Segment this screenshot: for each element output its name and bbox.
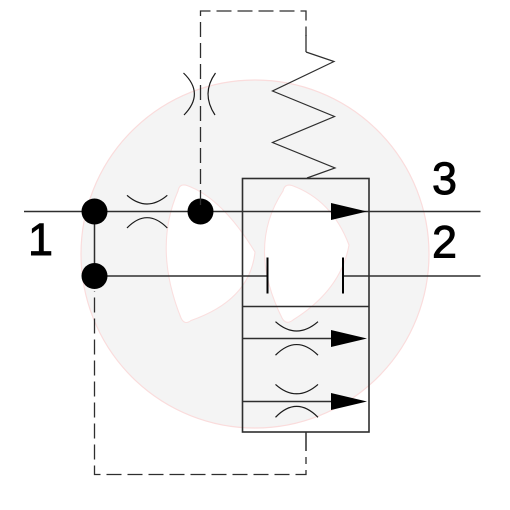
spring (273, 52, 336, 178)
throttle B arrow (331, 393, 367, 410)
watermark right petal (264, 185, 349, 322)
throttle A arrow (331, 330, 367, 347)
wire port 2 line right segment (343, 275, 481, 277)
junction node dot at port1/line2 (82, 263, 108, 289)
solid stub below valve body (305, 432, 307, 451)
wire solid lead into spring (305, 35, 307, 52)
pilot line dashed bottom (95, 291, 307, 475)
throttle B arcs (276, 384, 319, 417)
flow arrow in top section (331, 203, 367, 220)
wire vertical between node 1 junctions (94, 212, 96, 277)
throttle A arcs (276, 322, 319, 356)
svg-text:3: 3 (432, 153, 457, 204)
valve body divider (243, 306, 370, 308)
junction node dot at pilot tap on line3 (188, 199, 214, 225)
pilot restriction on dashed line (184, 73, 216, 115)
orifice on line 3 (127, 195, 167, 228)
blocked port tick left (267, 258, 269, 294)
blocked port tick right (342, 258, 344, 294)
throttle A flow line (243, 338, 341, 340)
svg-text:1: 1 (28, 214, 53, 265)
watermark disc (81, 80, 429, 428)
junction node dot at port1/line3 (82, 199, 108, 225)
valve body rectangle (243, 179, 370, 433)
pilot line dashed top (201, 11, 307, 205)
watermark left petal (166, 185, 255, 323)
wire port 2 line left segment (95, 275, 268, 277)
throttle B flow line (243, 401, 341, 403)
svg-text:2: 2 (432, 217, 457, 268)
wire port 3 line (24, 211, 481, 213)
